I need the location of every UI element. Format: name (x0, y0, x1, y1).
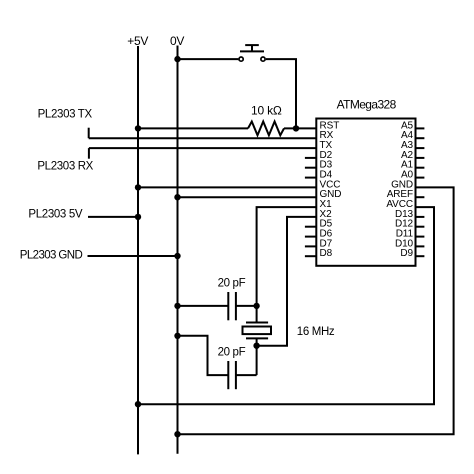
wire GND pin right loop (178, 187, 454, 434)
pin D6 stub (305, 236, 316, 238)
pin D2 stub (305, 157, 316, 159)
pin D13 stub (416, 216, 425, 218)
+5V rail (137, 46, 139, 454)
pin A3 stub (416, 147, 425, 149)
wire 0V to GND pin (178, 196, 317, 198)
svg-text:D9: D9 (400, 248, 413, 259)
wire PL2303 RX to TX pin (89, 147, 316, 149)
svg-text:16 MHz: 16 MHz (297, 326, 335, 338)
capacitor C2 20pF plates (227, 361, 229, 389)
pin A1 stub (416, 167, 425, 169)
junction +5V AVCC (135, 401, 141, 407)
pin A0 stub (416, 177, 425, 179)
pushbutton S1 cap (245, 44, 259, 46)
wire PL2303 GND to 0V (88, 255, 178, 257)
svg-text:0V: 0V (170, 34, 184, 48)
wire PL2303 5V to +5V (88, 216, 138, 218)
pin D4 stub (305, 177, 316, 179)
pin D10 stub (416, 245, 425, 247)
junction +5V resistor (135, 125, 141, 131)
crystal Y1 top plate (246, 322, 268, 324)
0V rail (177, 46, 179, 454)
svg-text:D8: D8 (320, 248, 333, 259)
pin D12 stub (416, 226, 425, 228)
wire 0V to C1 (178, 305, 229, 307)
wire PL2303 TX leader (88, 128, 90, 139)
junction 0V GND (174, 194, 180, 200)
wire X1 pin to crystal (257, 207, 317, 322)
wire +5V to VCC pin (138, 186, 316, 188)
junction 0V PL2303 GND (174, 253, 180, 259)
junction 0V C1 (174, 303, 180, 309)
wire C2 to X2 net (236, 374, 257, 376)
wire +5V to resistor (138, 127, 248, 129)
crystal Y1 bottom plate (246, 337, 268, 339)
svg-text:10 kΩ: 10 kΩ (251, 104, 282, 118)
junction 0V C2 (174, 333, 180, 339)
wire crystal bottom junction to C2 (256, 346, 258, 375)
pushbutton S1 bridge (240, 50, 264, 52)
junction resistor RST (293, 125, 299, 131)
crystal Y1 body (243, 327, 272, 335)
wire resistor to RST pin (284, 127, 316, 129)
pin D5 stub (305, 226, 316, 228)
junction +5V PL2303 5V (135, 214, 141, 220)
svg-text:PL2303 5V: PL2303 5V (28, 209, 82, 221)
wire C1 to X1 net (236, 305, 257, 307)
pin D9 stub (416, 255, 425, 257)
resistor R1 10k zigzag (248, 122, 284, 136)
capacitor C1 20pF plates (227, 292, 229, 320)
pushbutton S1 terminal right (261, 57, 265, 61)
svg-text:20 pF: 20 pF (218, 278, 246, 290)
junction +5V VCC (135, 184, 141, 190)
pin AREF stub (416, 196, 425, 198)
pin D11 stub (416, 236, 425, 238)
junction 0V button (174, 56, 180, 62)
svg-text:ATMega328: ATMega328 (337, 98, 397, 112)
junction X2 crystal (253, 343, 259, 349)
wire crystal bottom plate stem (256, 338, 258, 345)
wire 0V to pushbutton (178, 58, 239, 60)
wire AVCC pin to +5V loop (138, 207, 434, 404)
wire PL2303 RX leader (88, 148, 90, 159)
pin A4 stub (416, 137, 425, 139)
junction X1 C1 (253, 303, 259, 309)
svg-text:20 pF: 20 pF (218, 347, 246, 359)
pin D3 stub (305, 167, 316, 169)
pushbutton S1 stem (251, 45, 253, 51)
wire X2 pin to crystal bottom (257, 217, 317, 346)
wire pushbutton to RST net (266, 59, 296, 128)
wire 0V to C2 (178, 336, 229, 375)
pin A2 stub (416, 157, 425, 159)
pushbutton S1 terminal left (239, 57, 243, 61)
junction 0V GND loop (174, 431, 180, 437)
svg-text:PL2303 RX: PL2303 RX (37, 160, 93, 172)
IC U1 ATMega328 box (316, 119, 415, 266)
pin D8 stub (305, 255, 316, 257)
wire PL2303 TX to RX pin (89, 137, 317, 139)
pin D7 stub (305, 245, 316, 247)
svg-text:PL2303 TX: PL2303 TX (38, 109, 93, 121)
svg-text:PL2303 GND: PL2303 GND (20, 250, 83, 262)
pin A5 stub (416, 127, 425, 129)
svg-text:+5V: +5V (127, 34, 148, 48)
